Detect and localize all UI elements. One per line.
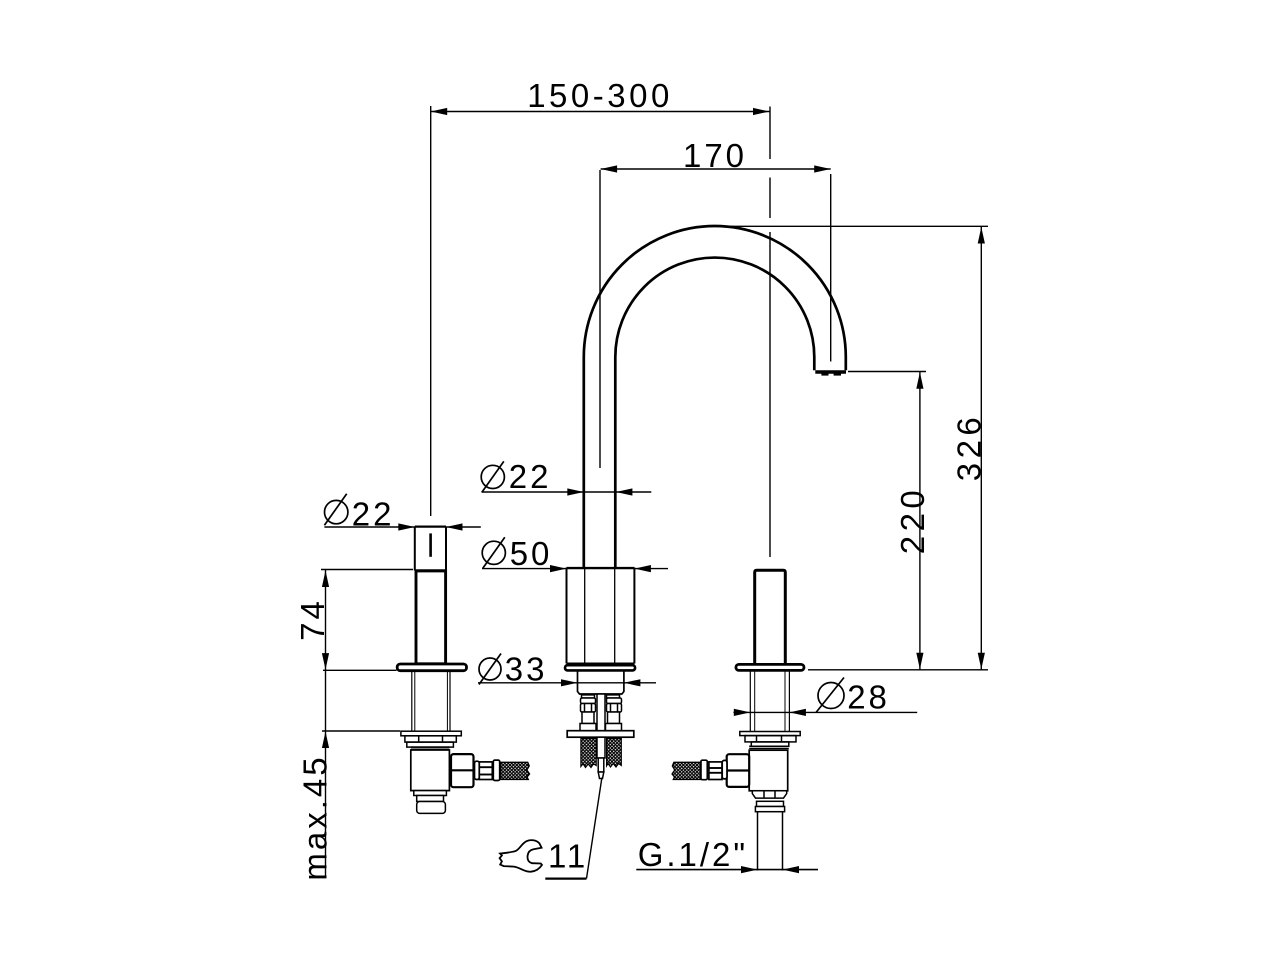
dim 150-300 — [431, 106, 770, 557]
left valve body — [411, 750, 450, 791]
center Ø33 body — [578, 670, 624, 694]
dim Ø22 center — [481, 461, 504, 492]
right braided hose — [672, 762, 701, 779]
svg-text:50: 50 — [510, 535, 553, 572]
right threaded tube below deck — [750, 671, 789, 732]
right valve body — [749, 750, 788, 791]
spout tip — [815, 370, 846, 374]
dim 170 — [600, 169, 831, 468]
dim 220 — [848, 372, 926, 670]
dim Ø33 — [479, 654, 501, 685]
svg-text:220: 220 — [894, 486, 931, 555]
svg-text:G.1/2": G.1/2" — [638, 836, 748, 873]
right tailpiece tube — [758, 812, 783, 871]
center hose stubs hatched — [581, 739, 596, 768]
center rod lower part — [597, 737, 605, 778]
center supply connectors — [580, 695, 622, 731]
spout gooseneck — [584, 226, 846, 568]
dim max.45 — [322, 730, 400, 732]
svg-text:11: 11 — [548, 838, 588, 875]
svg-text:22: 22 — [352, 495, 395, 532]
left side outlet hex nut — [451, 754, 474, 787]
dim 74 — [321, 570, 413, 879]
dim Ø22 left — [324, 494, 348, 526]
right locknut — [745, 736, 796, 749]
left valve bottom steps — [414, 791, 447, 814]
left locknut — [405, 736, 456, 750]
right tailpiece collar — [755, 801, 784, 811]
left handle body — [415, 571, 446, 664]
center flange — [565, 665, 635, 670]
center threaded rod — [597, 694, 605, 731]
center spout column Ø50 body — [567, 568, 635, 664]
dim Ø28 — [816, 678, 844, 713]
left handle stem — [415, 527, 446, 571]
left valve threaded tube below deck — [412, 671, 450, 732]
svg-text:max.45: max.45 — [297, 754, 334, 880]
dim 326 — [728, 226, 988, 670]
svg-text:22: 22 — [509, 458, 552, 495]
svg-text:326: 326 — [951, 413, 988, 482]
left handle center dash — [429, 533, 432, 556]
right handle flange — [736, 664, 804, 670]
svg-text:170: 170 — [683, 137, 747, 174]
svg-text:33: 33 — [505, 651, 548, 688]
dim Ø50 — [482, 537, 505, 568]
leader line to rod — [587, 778, 602, 879]
left outlet compression rings — [475, 760, 500, 780]
dim G.1/2 — [636, 869, 818, 871]
right side outlet hex nut — [727, 754, 750, 787]
deck extension line — [808, 669, 988, 671]
svg-text:28: 28 — [847, 679, 890, 716]
svg-text:74: 74 — [294, 598, 331, 641]
right locknut washer — [740, 732, 800, 736]
right outlet compression rings — [701, 760, 727, 780]
left handle flange — [397, 664, 466, 671]
left locknut washer — [401, 731, 461, 736]
right valve bottom hex — [752, 791, 786, 798]
svg-text:150-300: 150-300 — [527, 77, 673, 114]
right handle stem — [755, 570, 786, 664]
center mounting washer — [567, 731, 634, 738]
wrench icon — [500, 840, 542, 872]
left braided hose — [501, 762, 530, 779]
